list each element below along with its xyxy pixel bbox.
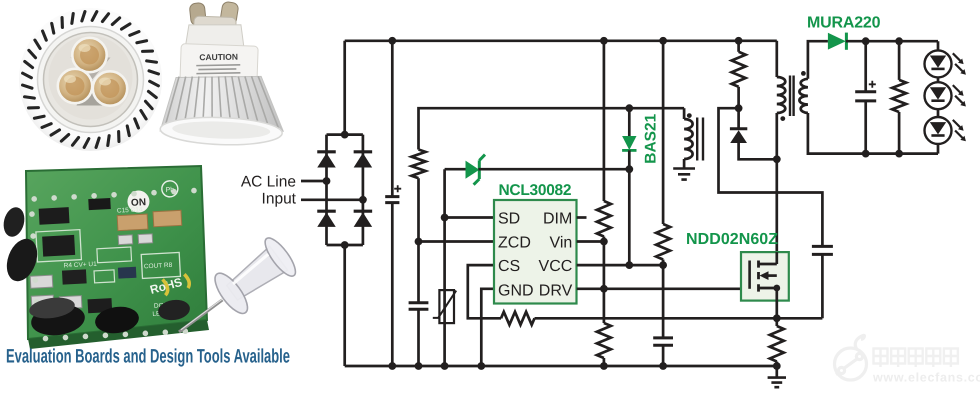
wire bridge bottom to ground rail bbox=[343, 245, 346, 366]
ground aux winding bbox=[673, 169, 695, 180]
resistor Vin upper bbox=[597, 201, 611, 237]
wire zener cathode to aux rectified node bbox=[478, 168, 629, 171]
transistor Q1 symbol bbox=[748, 261, 751, 289]
node AC line on left branch bbox=[323, 177, 331, 185]
svg-text:www.elecfans.com: www.elecfans.com bbox=[872, 371, 980, 385]
node AC input on right branch bbox=[359, 196, 367, 204]
LED at y=95.7 bbox=[925, 82, 952, 109]
wire Vin/DIM divider line bbox=[603, 41, 606, 201]
node SD pin junction bbox=[441, 214, 449, 222]
primary polarity dot bbox=[780, 116, 785, 121]
wire DIM stub bbox=[577, 216, 587, 219]
resistor DRV pulldown bbox=[597, 323, 611, 358]
svg-text:DIM: DIM bbox=[543, 211, 572, 228]
wire ground bottom rail bbox=[345, 365, 777, 368]
zener diode (green) on SD clamp bbox=[466, 161, 480, 179]
svg-text:ZCD: ZCD bbox=[498, 234, 531, 251]
node bridge bottom bbox=[341, 241, 349, 249]
svg-text:C15 C14: C15 C14 bbox=[117, 206, 143, 214]
resistor output bleeder bbox=[898, 41, 901, 80]
svg-text:NCL30082: NCL30082 bbox=[499, 182, 572, 199]
wire VCC pin bbox=[577, 264, 663, 267]
wire ZCD pin bbox=[419, 240, 494, 243]
diode bridge D3 (lower left) bbox=[317, 210, 336, 213]
wire CS pin to sense network bbox=[468, 265, 501, 318]
diode MURA220 output rectifier bbox=[828, 33, 846, 50]
wire zener to SD line bbox=[445, 168, 466, 171]
wire drain into box / source out bbox=[775, 252, 778, 301]
diode bridge D4 (lower right) bbox=[354, 210, 373, 213]
LED at y=63.9 bbox=[925, 50, 952, 77]
secondary polarity dot bbox=[801, 71, 806, 76]
wire divider mid to ZCD and cap bbox=[417, 178, 420, 302]
wire HV top rail bbox=[345, 39, 777, 42]
diode BAS21 aux rectifier bbox=[628, 108, 631, 136]
ground main bbox=[768, 378, 786, 388]
wire SD pin bbox=[445, 216, 494, 219]
LED string bbox=[937, 41, 940, 153]
photo: MR16 LED lamp front view bbox=[19, 8, 162, 151]
inductor aux winding bbox=[683, 108, 686, 119]
node drain/snubber bbox=[773, 155, 781, 163]
svg-text:BAS21: BAS21 bbox=[643, 113, 660, 163]
photo: evaluation board PCB bbox=[26, 166, 209, 349]
svg-text:DRV: DRV bbox=[539, 282, 573, 299]
capacitor clamp to source bbox=[812, 246, 833, 254]
aux core lines bbox=[697, 118, 703, 161]
svg-text:Input: Input bbox=[262, 190, 297, 207]
svg-text:SD: SD bbox=[498, 211, 520, 228]
svg-text:VCC: VCC bbox=[539, 258, 573, 275]
svg-text:Evaluation Boards and Design T: Evaluation Boards and Design Tools Avail… bbox=[6, 346, 290, 368]
node ZCD divider bbox=[415, 238, 423, 246]
aux polarity dot bbox=[687, 113, 692, 118]
wire CS sense run to MOSFET source bbox=[535, 317, 823, 320]
resistor CS filter bbox=[501, 312, 535, 325]
node source/sense bbox=[773, 314, 781, 322]
watermark: elecfans logo and text bbox=[835, 335, 867, 380]
op IC U1 NCL30082 box bbox=[494, 200, 577, 304]
node bridge top bbox=[341, 131, 349, 139]
diode snubber clamp bbox=[737, 108, 740, 128]
svg-text:NDD02N60Z: NDD02N60Z bbox=[686, 231, 778, 248]
resistor startup HV bbox=[656, 224, 670, 260]
svg-text:Vin: Vin bbox=[549, 234, 572, 251]
svg-text:GND: GND bbox=[498, 282, 534, 299]
svg-text:AC Line: AC Line bbox=[241, 174, 296, 191]
wire clamp cap branch bbox=[719, 108, 823, 246]
svg-text:MURA220: MURA220 bbox=[807, 14, 881, 31]
wire GND pin bbox=[481, 289, 494, 366]
photo: clear push pin bbox=[165, 233, 301, 351]
wire SD clamp vertical line bbox=[443, 169, 446, 366]
LED at y=130.5 bbox=[925, 117, 952, 144]
resistor divider upper R1 bbox=[412, 150, 426, 179]
transformer secondary winding bbox=[799, 79, 807, 113]
transformer core bbox=[790, 76, 794, 117]
photo: GU10 LED lamp side view bbox=[160, 0, 288, 147]
capacitor on ZCD divider bbox=[409, 303, 429, 310]
resistor snubber bbox=[737, 41, 740, 52]
wire ZCD feed from divider top bbox=[419, 108, 685, 149]
capacitor output electrolytic bbox=[864, 41, 867, 91]
bridge rectifier frame bbox=[327, 135, 363, 245]
diode bridge D1 (upper left) bbox=[317, 150, 336, 153]
wire DRV pin to gate bbox=[577, 287, 750, 290]
wire bridge top to HV rail bbox=[343, 41, 346, 135]
resistor sense bbox=[775, 318, 778, 326]
svg-text:CS: CS bbox=[498, 258, 520, 275]
pin labels NCL30082 bbox=[498, 211, 573, 300]
transformer primary winding bbox=[775, 41, 778, 77]
wire AC line input leads bbox=[301, 180, 327, 183]
capacitor VCC bbox=[653, 338, 673, 345]
wire Vin pin bbox=[577, 240, 604, 243]
capacitor bulk electrolytic bbox=[391, 41, 394, 196]
wire startup resistor line bbox=[662, 41, 665, 224]
svg-text:CAUTION: CAUTION bbox=[199, 52, 238, 63]
varistor / NTC on SD line bbox=[439, 290, 454, 323]
transistor Q1 NDD02N60Z box bbox=[741, 252, 789, 301]
diode bridge D2 (upper right) bbox=[354, 150, 373, 153]
